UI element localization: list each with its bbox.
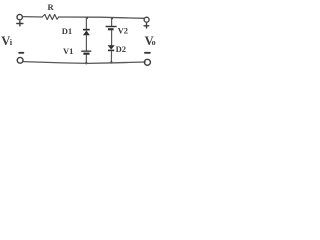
wire: V2 to D2 xyxy=(111,30,113,45)
wire: node B down to V2 xyxy=(111,18,113,26)
wire: resistor to output terminal xyxy=(59,17,145,18)
node D (bottom of V2 branch) xyxy=(110,61,112,63)
svg-text:V2: V2 xyxy=(118,25,128,35)
svg-text:V1: V1 xyxy=(63,46,73,56)
diode D2 xyxy=(108,45,115,51)
terminal Vo- xyxy=(144,59,150,65)
wire: D1 to V1 xyxy=(85,35,87,50)
battery V1 xyxy=(81,51,91,55)
node A (top of D1 branch) xyxy=(86,17,88,19)
svg-text:D2: D2 xyxy=(116,44,126,54)
diode D1 xyxy=(83,29,90,36)
terminal Vi+ xyxy=(17,14,22,19)
battery V2 xyxy=(106,26,117,31)
resistor R xyxy=(42,14,58,19)
svg-text:Vi: Vi xyxy=(1,34,13,48)
bottom rail wire xyxy=(23,62,145,64)
wire: Vi+ terminal to resistor R xyxy=(22,16,42,18)
node B (top of V2 branch) xyxy=(111,17,113,19)
minus mark (output -) xyxy=(145,52,150,54)
svg-text:Vo: Vo xyxy=(145,34,156,48)
wire: node A down to D1 xyxy=(85,18,87,29)
svg-text:R: R xyxy=(48,2,55,12)
plus mark (input +) xyxy=(17,21,23,26)
terminal Vo+ xyxy=(144,17,149,22)
terminal Vi- xyxy=(17,57,23,63)
node C (bottom of D1 branch) xyxy=(85,62,87,64)
minus mark (input -) xyxy=(19,52,23,54)
wire: V1 to bottom rail xyxy=(85,55,87,64)
wire: D2 to bottom rail xyxy=(110,51,112,62)
svg-text:D1: D1 xyxy=(62,26,72,36)
plus mark (output +) xyxy=(144,24,149,29)
